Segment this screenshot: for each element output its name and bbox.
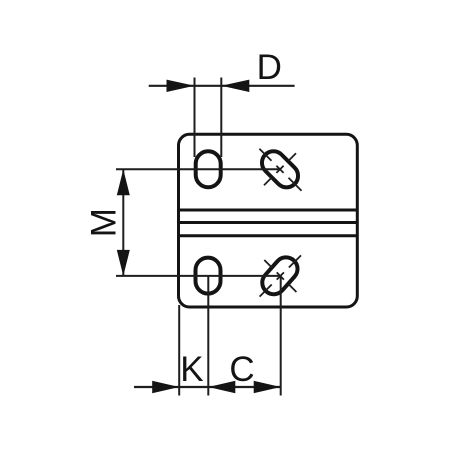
dimension D extension line left: [194, 78, 196, 158]
centerline top slots horizontal: [116, 168, 281, 170]
slot top-left oval: [196, 151, 221, 187]
slot top-right angled: [257, 146, 303, 192]
plate outline: [179, 134, 358, 307]
svg-text:M: M: [84, 208, 123, 237]
center marks top-right slot: [259, 149, 301, 191]
svg-text:K: K: [180, 350, 203, 389]
dimension K arrow left: [208, 381, 235, 393]
extension line bottom oval center: [207, 276, 209, 396]
dimension D line: [149, 85, 295, 87]
slot bottom-right angled: [258, 253, 303, 299]
dimension K arrow right: [152, 381, 179, 393]
slot bottom-left oval: [196, 258, 221, 294]
dimension C arrow right: [254, 381, 281, 393]
svg-text:D: D: [257, 48, 282, 87]
dimension D extension line right: [220, 78, 222, 158]
label M: [84, 208, 123, 237]
centerline bottom slots horizontal: [116, 275, 281, 277]
dimension D arrow right: [221, 80, 249, 92]
extension line plate left bottom: [178, 305, 180, 396]
dimension D arrow left: [167, 80, 195, 92]
groove line upper: [179, 209, 358, 212]
center marks bottom-right slot: [260, 255, 301, 296]
dimension M arrow up: [117, 169, 130, 195]
label C: [229, 350, 254, 389]
dimension M line: [122, 169, 124, 276]
svg-text:C: C: [229, 350, 254, 389]
dimension KC line: [134, 386, 281, 388]
groove line middle: [179, 221, 358, 224]
dimension M arrow down: [117, 250, 130, 276]
extension line bottom angled slot center: [280, 276, 282, 396]
label D: [257, 48, 282, 87]
label K: [180, 350, 203, 389]
groove line lower: [179, 234, 358, 237]
